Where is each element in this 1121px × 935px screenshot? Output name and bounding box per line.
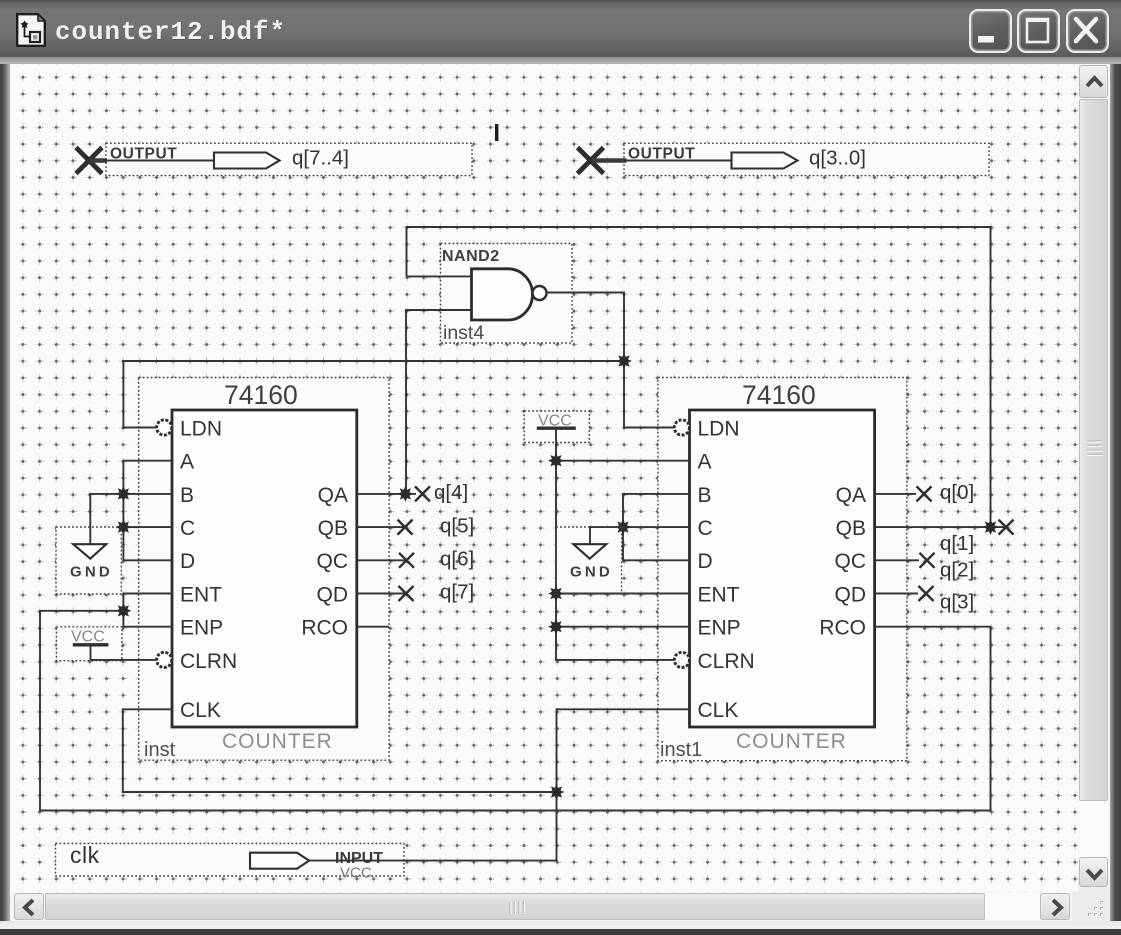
- QA dangling X of inst1: [917, 486, 932, 501]
- svg-text:NAND2: NAND2: [442, 248, 500, 265]
- wire: branch from NAND output net to LDN of inst: [123, 361, 624, 428]
- wire: ENP input of inst1: [556, 626, 690, 628]
- wire: QC output of inst1: [875, 559, 919, 561]
- svg-text:B: B: [698, 484, 712, 507]
- wire: ENT input of inst1: [556, 593, 690, 595]
- wire: NAND input A stub: [407, 275, 472, 277]
- wire: ENT input of inst: [123, 594, 172, 627]
- svg-text:q[6]: q[6]: [440, 548, 474, 571]
- svg-text:QA: QA: [836, 484, 866, 507]
- ground symbol gnd1 : symbol background: [56, 527, 121, 594]
- wire: vcc1 to CLRN of inst: [91, 646, 157, 660]
- wire: QA output of inst: [357, 493, 416, 495]
- junction: C input node of inst: [116, 519, 132, 535]
- svg-text:q[3]: q[3]: [940, 591, 974, 614]
- counter U2 74160 inst1 : selection box: [658, 378, 907, 761]
- svg-text:GND: GND: [70, 564, 113, 581]
- svg-text:q[2]: q[2]: [940, 559, 974, 582]
- svg-text:q[0]: q[0]: [940, 481, 974, 504]
- vcc symbol vcc1 : selection box: [56, 627, 122, 661]
- QB dangling X of inst1: [999, 520, 1014, 535]
- svg-text:q[7]: q[7]: [440, 581, 474, 604]
- vcc symbol vcc2 : selection box: [524, 411, 589, 443]
- svg-text:CLK: CLK: [180, 699, 221, 722]
- wire: net q[1] from top rail to NAND input A: [407, 227, 991, 527]
- ground symbol gnd2 : symbol background: [556, 527, 622, 594]
- junction: clk net branch: [549, 784, 565, 800]
- svg-text:ENP: ENP: [698, 617, 741, 640]
- svg-text:74160: 74160: [742, 380, 816, 410]
- svg-text:COUNTER: COUNTER: [736, 730, 847, 753]
- svg-text:ENT: ENT: [698, 583, 740, 606]
- svg-text:RCO: RCO: [819, 617, 866, 640]
- vcc symbol vcc1 : bar: [73, 643, 109, 646]
- svg-text:q[4]: q[4]: [434, 481, 468, 504]
- output pin q[7..4] : bold wire stub: [90, 158, 107, 163]
- input pin clk : symbol background: [56, 844, 405, 877]
- QC dangling X of inst: [399, 553, 414, 568]
- vcc symbol vcc1 : symbol background: [56, 627, 122, 661]
- svg-text:A: A: [698, 451, 712, 474]
- counter U2 : CLRN inversion bubble: [674, 652, 689, 667]
- nand gate NAND2 inst4 : selection box: [441, 244, 573, 344]
- svg-text:inst: inst: [144, 739, 176, 761]
- svg-text:D: D: [180, 550, 195, 573]
- counter U1 74160 inst : body: [172, 410, 357, 727]
- wire: QC output of inst: [357, 559, 407, 561]
- svg-text:B: B: [180, 484, 194, 507]
- QD dangling X of inst: [399, 586, 414, 601]
- svg-text:LDN: LDN: [698, 417, 740, 440]
- junction: ENT node of inst1: [548, 586, 564, 602]
- junction: NAND output net branch: [616, 353, 632, 369]
- output pin q[7..4] : pentagon symbol: [214, 153, 280, 169]
- output pin q[7..4] : wire to symbol: [104, 160, 214, 162]
- wire: C input of inst: [123, 526, 172, 528]
- svg-text:QA: QA: [318, 484, 348, 507]
- counter U2 74160 inst1 : symbol background: [658, 378, 907, 761]
- svg-text:GND: GND: [570, 564, 613, 581]
- svg-text:q[1]: q[1]: [940, 532, 974, 555]
- svg-text:QB: QB: [318, 517, 348, 540]
- ground symbol gnd2 : triangle: [573, 544, 606, 559]
- wire: vcc2 rail down to CLRN of inst1: [556, 429, 674, 660]
- counter U1 74160 inst : symbol background: [139, 378, 389, 761]
- vcc symbol vcc2 : symbol background: [524, 411, 589, 443]
- QB dangling X of inst: [398, 520, 413, 535]
- wire: NAND output to LDN nets: [547, 293, 674, 428]
- svg-text:C: C: [698, 517, 713, 540]
- nand gate NAND2 inst4 : symbol background: [441, 244, 573, 344]
- svg-text:q[3..0]: q[3..0]: [809, 147, 866, 170]
- QD dangling X of inst1: [919, 586, 934, 601]
- wire: A input of inst1: [556, 460, 690, 462]
- junction: QB node of inst1 (to NAND): [983, 519, 999, 535]
- output pin q[7..4] : selection box: [106, 143, 472, 175]
- wire: QB output of inst: [357, 526, 405, 528]
- text cursor I-beam: [495, 124, 498, 141]
- svg-text:OUTPUT: OUTPUT: [110, 146, 177, 163]
- output pin q[7..4] : symbol background: [106, 143, 472, 175]
- junction: ENP node of inst1: [548, 619, 564, 635]
- svg-text:clk: clk: [70, 842, 100, 868]
- svg-text:RCO: RCO: [301, 617, 348, 640]
- svg-text:ENT: ENT: [180, 583, 222, 606]
- svg-text:QB: QB: [836, 517, 866, 540]
- output pin q[3..0] : pin-end X marker: [578, 148, 604, 174]
- svg-text:q[5]: q[5]: [440, 515, 474, 538]
- counter U1 74160 inst : selection box: [139, 378, 389, 761]
- junction: C input node of inst1: [615, 519, 631, 535]
- counter U1 : LDN inversion bubble: [157, 420, 172, 435]
- output pin q[3..0] : bold wire stub: [592, 158, 627, 163]
- wire: QD output of inst1: [875, 593, 918, 595]
- junction: ENT/ENP node of inst: [116, 603, 132, 619]
- svg-text:q[7..4]: q[7..4]: [292, 147, 349, 170]
- output pin q[3..0] : symbol background: [624, 143, 989, 175]
- counter U2 pin labels right: [819, 484, 866, 640]
- svg-text:VCC: VCC: [71, 629, 105, 646]
- wire: A input of inst: [123, 461, 172, 561]
- wire: B input of inst1: [623, 494, 690, 560]
- svg-text:CLRN: CLRN: [698, 650, 755, 673]
- ground symbol gnd1 : selection box: [56, 527, 121, 594]
- counter U2 pin labels left: [698, 417, 755, 722]
- wire: QB output of inst1 to net q[1]: [875, 526, 1006, 528]
- wire: C input of inst1: [623, 526, 690, 528]
- ground symbol gnd2 : selection box: [556, 527, 622, 594]
- wire: RCO stub of inst: [357, 626, 389, 628]
- vcc symbol vcc2 : bar: [537, 427, 576, 430]
- wire: clk net to CLK of inst1: [309, 709, 689, 860]
- wire: C node to ground gnd2: [590, 527, 623, 544]
- svg-text:QC: QC: [317, 550, 349, 573]
- wire: CLK input of inst from clk net: [123, 709, 557, 792]
- output pin q[3..0] : wire to symbol: [624, 160, 732, 162]
- svg-text:inst4: inst4: [443, 322, 484, 344]
- junction: QA node of inst (to NAND): [398, 486, 414, 502]
- output pin q[3..0] : pentagon symbol: [732, 153, 798, 169]
- svg-text:D: D: [698, 550, 713, 573]
- svg-text:OUTPUT: OUTPUT: [628, 146, 695, 163]
- ground symbol gnd1 : triangle: [73, 544, 106, 559]
- wire: cascade net RCO of inst1 to ENT/ENP of inst: [40, 611, 991, 811]
- wire: net q[4] from QA1 up to NAND input B: [406, 310, 471, 494]
- svg-text:CLRN: CLRN: [180, 650, 237, 673]
- nand gate NAND2 inst4 : body: [472, 269, 533, 320]
- svg-text:COUNTER: COUNTER: [222, 730, 333, 753]
- counter U1 pin labels right: [301, 484, 348, 640]
- QC dangling X of inst1: [920, 553, 935, 568]
- svg-text:inst1: inst1: [660, 739, 702, 761]
- counter U2 : LDN inversion bubble: [674, 420, 689, 435]
- input pin clk : pentagon symbol: [250, 853, 309, 869]
- output pin q[7..4] : pin-end X marker: [76, 148, 102, 174]
- svg-text:LDN: LDN: [180, 417, 222, 440]
- svg-text:QD: QD: [317, 583, 349, 606]
- counter U1 : CLRN inversion bubble: [157, 652, 172, 667]
- svg-text:74160: 74160: [224, 380, 298, 410]
- QA dangling X of inst: [415, 486, 430, 501]
- svg-text:ENP: ENP: [180, 617, 223, 640]
- svg-text:CLK: CLK: [698, 699, 739, 722]
- wire: QD output of inst: [357, 593, 406, 595]
- nand gate NAND2 inst4 : inversion bubble: [533, 286, 547, 300]
- wire: B input of inst: [123, 493, 172, 495]
- svg-text:QC: QC: [835, 550, 867, 573]
- wire: QA output of inst1: [875, 493, 916, 495]
- output pin q[3..0] : selection box: [624, 143, 989, 175]
- svg-text:C: C: [180, 517, 195, 540]
- svg-text:VCC: VCC: [340, 865, 372, 882]
- svg-text:A: A: [180, 451, 194, 474]
- counter U1 pin labels left: [180, 417, 237, 722]
- input pin clk : selection box: [56, 844, 405, 877]
- junction: B input node of inst: [116, 486, 132, 502]
- svg-text:QD: QD: [835, 583, 867, 606]
- junction: A node of inst1: [548, 453, 564, 469]
- wire: B node to ground gnd1: [90, 494, 123, 544]
- counter U2 74160 inst1 : body: [690, 410, 875, 727]
